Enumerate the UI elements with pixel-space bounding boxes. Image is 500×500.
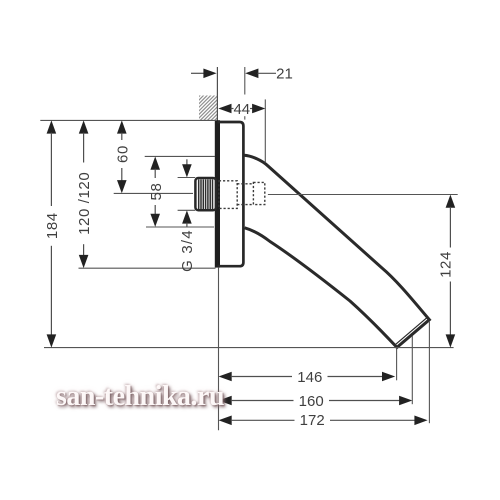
watermark san-tehnika.ru	[56, 381, 224, 413]
ref line outlet centre level (124 top)	[268, 194, 458, 196]
ref line 60 bottom (pipe centre)	[114, 192, 193, 194]
ref line nipple top ext	[178, 177, 196, 179]
svg-text:160: 160	[299, 393, 324, 410]
dimension 172	[219, 412, 428, 429]
ext line 21 right	[244, 67, 246, 95]
dimension 184 (vertical left)	[44, 120, 61, 347]
dimension 160	[219, 393, 413, 410]
dimension G 3/4 (thread callout)	[179, 159, 196, 272]
thin reference lines	[40, 67, 457, 430]
dimension 58 (vertical)	[148, 157, 165, 227]
svg-text:146: 146	[297, 369, 322, 386]
ref line nipple bottom ext	[178, 209, 196, 211]
svg-text:44: 44	[233, 101, 250, 118]
ref line spout tip level (bottom)	[44, 347, 454, 349]
hidden connector dashed rect 2	[253, 182, 264, 204]
wall plate flange (thick black bar)	[215, 120, 220, 267]
wall hatching	[171, 92, 246, 124]
wall plate body	[218, 122, 244, 266]
ref line 58 top	[145, 155, 215, 157]
svg-text:172: 172	[300, 412, 325, 429]
G 3/4 threaded nipple	[195, 178, 216, 210]
dimension 21 (wall to plate face)	[191, 66, 293, 83]
ref line 58 bottom	[146, 226, 214, 228]
nipple threads	[199, 179, 213, 209]
ext line outlet centre	[411, 336, 413, 404]
svg-text:G 3/4: G 3/4	[179, 229, 196, 272]
svg-text:120 /120: 120 /120	[76, 172, 93, 235]
ext line 44 right	[264, 99, 266, 162]
ext line tip bottom corner	[396, 348, 398, 380]
hidden connector dashed rect 1	[219, 181, 237, 209]
spout outlet rim (inner parallel line)	[396, 317, 428, 344]
dimension 60 (vertical)	[114, 120, 131, 193]
dimension 120/120 (vertical)	[76, 120, 93, 268]
wall surface line	[216, 67, 218, 121]
svg-text:21: 21	[276, 66, 293, 83]
spout body outline	[244, 155, 429, 347]
svg-text:124: 124	[438, 251, 455, 278]
dimension 124 (vertical right)	[438, 195, 456, 348]
ref line plate bottom level	[79, 267, 216, 269]
dotted connector top	[237, 183, 253, 185]
dimension 146	[219, 369, 396, 386]
ext line tip top corner	[428, 321, 430, 423]
ref line plate top level	[40, 119, 217, 121]
dotted connector bottom	[237, 204, 253, 206]
svg-text:58: 58	[148, 183, 165, 201]
dimension 44 (plate to spout base)	[218, 101, 265, 118]
svg-text:60: 60	[114, 145, 131, 163]
ext line wall face bottom	[218, 268, 220, 431]
svg-text:184: 184	[44, 212, 61, 239]
